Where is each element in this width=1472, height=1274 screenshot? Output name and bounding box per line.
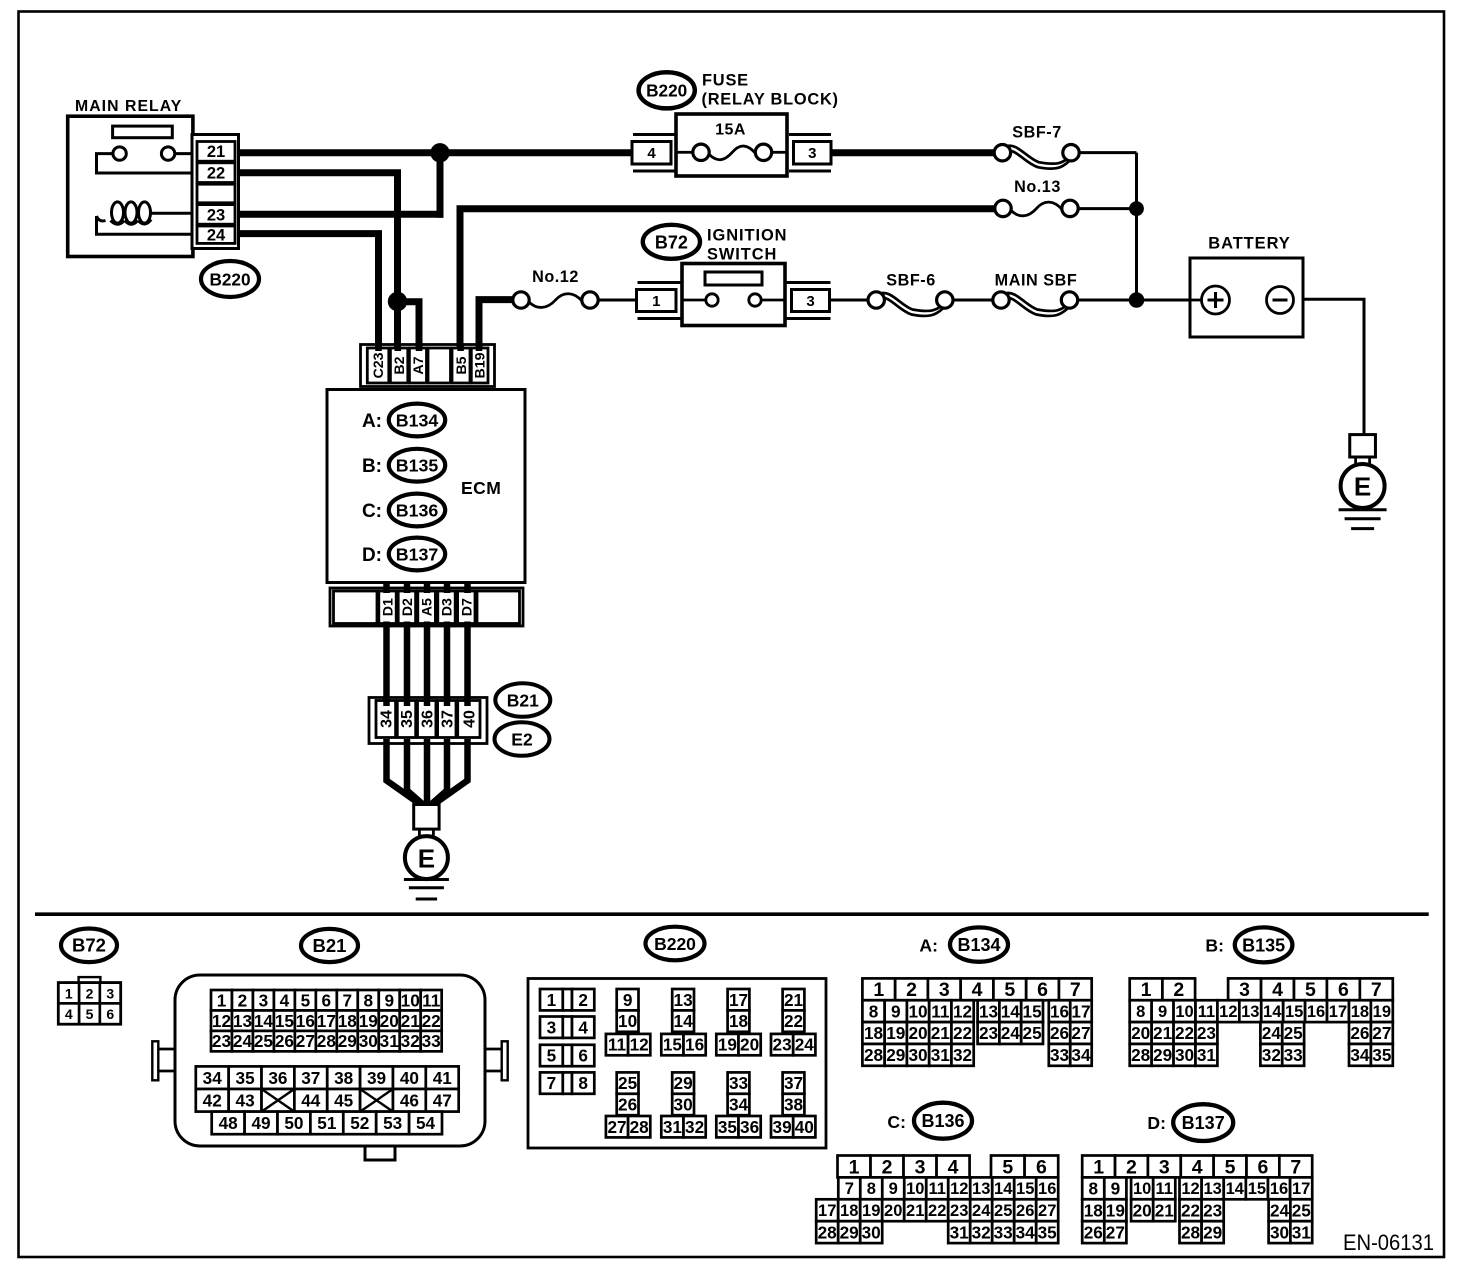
connector label C: B136 xyxy=(887,1103,972,1139)
svg-text:15: 15 xyxy=(1248,1180,1266,1198)
svg-text:3: 3 xyxy=(1159,1156,1170,1178)
svg-text:15: 15 xyxy=(275,1011,295,1031)
connector B21/E2 block (pins 34-40) xyxy=(369,698,487,744)
ECM top connector housing xyxy=(361,345,495,387)
svg-text:10: 10 xyxy=(401,990,420,1010)
battery positive terminal xyxy=(1202,286,1230,314)
svg-text:34: 34 xyxy=(378,710,395,728)
ECM connector ref B: B135 xyxy=(362,449,445,482)
svg-text:35: 35 xyxy=(1372,1045,1392,1065)
svg-text:23: 23 xyxy=(1203,1200,1222,1220)
svg-text:B21: B21 xyxy=(507,690,539,710)
svg-text:34: 34 xyxy=(729,1095,749,1115)
svg-text:9: 9 xyxy=(1111,1178,1121,1198)
svg-text:44: 44 xyxy=(301,1090,321,1110)
svg-text:18: 18 xyxy=(338,1011,358,1031)
svg-text:7: 7 xyxy=(547,1073,557,1093)
svg-text:19: 19 xyxy=(1373,1003,1391,1021)
svg-text:18: 18 xyxy=(1351,1003,1369,1021)
svg-text:15: 15 xyxy=(1023,1001,1043,1021)
svg-text:25: 25 xyxy=(1023,1023,1043,1043)
connector label B72 xyxy=(643,225,700,259)
connector B21 pinout housing xyxy=(152,975,507,1160)
svg-text:BATTERY: BATTERY xyxy=(1208,235,1290,253)
svg-text:34: 34 xyxy=(1071,1045,1091,1065)
svg-text:39: 39 xyxy=(773,1117,792,1137)
svg-text:(RELAY BLOCK): (RELAY BLOCK) xyxy=(702,91,839,109)
svg-text:8: 8 xyxy=(1088,1178,1098,1198)
svg-text:17: 17 xyxy=(317,1011,336,1031)
svg-text:14: 14 xyxy=(1263,1003,1282,1021)
svg-text:20: 20 xyxy=(884,1202,902,1220)
svg-text:7: 7 xyxy=(1371,979,1382,1001)
svg-text:52: 52 xyxy=(350,1113,369,1133)
svg-text:18: 18 xyxy=(840,1202,858,1220)
svg-text:12: 12 xyxy=(630,1035,649,1055)
connector label B220 (relay block) xyxy=(639,72,695,108)
wire: ignition switch line No.12 to battery xyxy=(598,299,638,302)
svg-text:8: 8 xyxy=(1136,1003,1145,1021)
svg-text:33: 33 xyxy=(994,1222,1013,1242)
ECM connector ref A: B134 xyxy=(362,404,445,437)
svg-text:2: 2 xyxy=(578,990,588,1010)
wire: branch junction to ECM A7 xyxy=(398,302,420,349)
svg-text:23: 23 xyxy=(950,1202,968,1220)
svg-text:16: 16 xyxy=(1270,1180,1288,1198)
svg-text:8: 8 xyxy=(363,990,373,1010)
svg-text:B135: B135 xyxy=(396,456,439,476)
svg-text:B136: B136 xyxy=(921,1111,964,1131)
svg-text:25: 25 xyxy=(994,1202,1012,1220)
svg-text:35: 35 xyxy=(399,710,416,728)
svg-text:15: 15 xyxy=(663,1035,683,1055)
svg-text:35: 35 xyxy=(1038,1222,1058,1242)
svg-text:9: 9 xyxy=(1158,1003,1167,1021)
connector B134 pinout xyxy=(862,978,1091,1065)
svg-text:11: 11 xyxy=(608,1035,627,1055)
svg-text:5: 5 xyxy=(547,1046,557,1066)
svg-text:2: 2 xyxy=(86,985,94,1001)
wire: main relay pin 21 to fuse pin 4 (net B+) xyxy=(235,149,634,156)
svg-text:D:: D: xyxy=(362,545,382,566)
svg-text:16: 16 xyxy=(296,1011,315,1031)
svg-text:24: 24 xyxy=(207,227,226,245)
connector B220 pinout box xyxy=(528,979,826,1149)
svg-text:21: 21 xyxy=(931,1023,951,1043)
svg-text:B137: B137 xyxy=(1182,1113,1225,1133)
svg-text:24: 24 xyxy=(233,1031,253,1051)
fusible link SBF-6 xyxy=(868,272,953,316)
svg-text:15A: 15A xyxy=(715,122,746,139)
svg-text:14: 14 xyxy=(994,1180,1013,1198)
svg-text:7: 7 xyxy=(1070,979,1081,1001)
svg-text:A7: A7 xyxy=(411,356,427,374)
svg-text:SWITCH: SWITCH xyxy=(707,246,777,264)
svg-text:13: 13 xyxy=(233,1011,252,1031)
svg-text:4: 4 xyxy=(65,1006,73,1022)
svg-text:2: 2 xyxy=(238,990,248,1010)
svg-text:37: 37 xyxy=(784,1073,803,1093)
svg-text:22: 22 xyxy=(953,1023,972,1043)
svg-text:36: 36 xyxy=(419,710,436,728)
svg-text:26: 26 xyxy=(1016,1202,1034,1220)
svg-text:A5: A5 xyxy=(420,598,436,616)
svg-text:22: 22 xyxy=(422,1011,441,1031)
svg-text:D7: D7 xyxy=(459,598,475,616)
svg-text:B72: B72 xyxy=(655,232,688,252)
svg-text:B:: B: xyxy=(1205,936,1224,956)
svg-text:32: 32 xyxy=(685,1117,704,1137)
svg-text:14: 14 xyxy=(674,1011,694,1031)
ECM bottom connector strip xyxy=(330,588,523,626)
ignition pin 3 xyxy=(786,283,831,319)
wire: battery negative to ground E xyxy=(1293,299,1364,437)
svg-text:21: 21 xyxy=(207,143,225,161)
svg-text:4: 4 xyxy=(647,145,656,162)
svg-text:15: 15 xyxy=(1285,1003,1303,1021)
svg-text:30: 30 xyxy=(359,1031,378,1051)
wire stubs ECM box to bottom strip xyxy=(383,582,390,593)
svg-text:25: 25 xyxy=(1284,1023,1304,1043)
svg-text:30: 30 xyxy=(674,1095,693,1115)
svg-text:26: 26 xyxy=(618,1095,637,1115)
svg-text:ECM: ECM xyxy=(461,478,501,498)
svg-text:40: 40 xyxy=(795,1117,814,1137)
svg-text:24: 24 xyxy=(1001,1023,1021,1043)
svg-text:3: 3 xyxy=(1239,979,1250,1001)
svg-text:17: 17 xyxy=(818,1202,836,1220)
svg-text:21: 21 xyxy=(906,1202,924,1220)
connector label B21 xyxy=(495,683,550,717)
junction dot on pin 22 net xyxy=(388,292,407,311)
connector B137 pinout xyxy=(1082,1156,1312,1244)
svg-text:1: 1 xyxy=(547,990,557,1010)
svg-text:31: 31 xyxy=(931,1045,951,1065)
svg-text:12: 12 xyxy=(212,1011,231,1031)
svg-text:10: 10 xyxy=(906,1180,924,1198)
fuse No.13 xyxy=(995,178,1078,217)
svg-text:25: 25 xyxy=(254,1031,274,1051)
svg-text:5: 5 xyxy=(301,990,311,1010)
svg-text:29: 29 xyxy=(840,1222,859,1242)
svg-text:39: 39 xyxy=(367,1068,386,1088)
main relay box xyxy=(68,116,193,256)
svg-text:EN-06131: EN-06131 xyxy=(1343,1230,1434,1255)
svg-text:D1: D1 xyxy=(381,598,397,616)
B21 pinout pins 34-47 xyxy=(196,1066,459,1111)
svg-text:13: 13 xyxy=(1241,1003,1259,1021)
svg-text:22: 22 xyxy=(1181,1200,1200,1220)
connector label B: B135 xyxy=(1205,927,1292,962)
svg-text:38: 38 xyxy=(334,1068,354,1088)
ground E (battery side) xyxy=(1339,435,1387,529)
relay connector housing B220 (pins 21-24) xyxy=(192,135,239,249)
svg-text:20: 20 xyxy=(1131,1023,1150,1043)
svg-text:B134: B134 xyxy=(957,935,1000,955)
svg-text:30: 30 xyxy=(1270,1222,1289,1242)
svg-text:9: 9 xyxy=(384,990,394,1010)
svg-text:B137: B137 xyxy=(396,544,439,564)
svg-text:2: 2 xyxy=(906,979,917,1001)
svg-text:11: 11 xyxy=(929,1180,946,1198)
svg-text:12: 12 xyxy=(953,1001,972,1021)
svg-text:D2: D2 xyxy=(400,598,416,616)
svg-text:11: 11 xyxy=(1198,1003,1215,1021)
svg-text:2: 2 xyxy=(1126,1156,1137,1178)
svg-text:33: 33 xyxy=(729,1073,748,1093)
svg-text:42: 42 xyxy=(203,1090,222,1110)
svg-text:1: 1 xyxy=(652,293,660,310)
svg-text:31: 31 xyxy=(950,1222,970,1242)
svg-text:1: 1 xyxy=(849,1156,860,1178)
svg-text:16: 16 xyxy=(1050,1001,1069,1021)
svg-text:26: 26 xyxy=(275,1031,294,1051)
svg-text:17: 17 xyxy=(1292,1180,1310,1198)
svg-text:21: 21 xyxy=(784,990,804,1010)
svg-text:19: 19 xyxy=(1106,1200,1125,1220)
svg-text:9: 9 xyxy=(623,990,633,1010)
svg-text:5: 5 xyxy=(1002,1156,1013,1178)
svg-text:23: 23 xyxy=(207,206,225,224)
svg-text:1: 1 xyxy=(1093,1156,1104,1178)
svg-text:53: 53 xyxy=(383,1113,402,1133)
fusible link MAIN SBF xyxy=(993,272,1078,316)
wire: main relay pin 23 horizontal xyxy=(235,211,444,218)
svg-text:4: 4 xyxy=(578,1017,588,1037)
svg-text:51: 51 xyxy=(317,1113,337,1133)
svg-text:3: 3 xyxy=(806,293,814,310)
svg-text:28: 28 xyxy=(630,1117,650,1137)
svg-text:33: 33 xyxy=(1284,1045,1303,1065)
svg-text:22: 22 xyxy=(207,165,225,183)
svg-text:B:: B: xyxy=(362,456,382,477)
svg-text:4: 4 xyxy=(1192,1156,1203,1178)
svg-text:28: 28 xyxy=(1131,1045,1151,1065)
svg-text:31: 31 xyxy=(663,1117,683,1137)
svg-text:18: 18 xyxy=(864,1023,884,1043)
svg-text:16: 16 xyxy=(1307,1003,1325,1021)
svg-text:24: 24 xyxy=(972,1202,991,1220)
wire: SBF-7 to right vertical bus xyxy=(1079,151,1137,154)
svg-text:33: 33 xyxy=(1050,1045,1069,1065)
svg-text:38: 38 xyxy=(784,1095,804,1115)
connector label B72 (pinout) xyxy=(61,929,117,963)
svg-text:6: 6 xyxy=(322,990,332,1010)
svg-text:35: 35 xyxy=(718,1117,738,1137)
relay contact plate xyxy=(113,126,173,138)
fuse pin 4 xyxy=(632,135,676,172)
svg-text:4: 4 xyxy=(1272,979,1283,1001)
svg-text:MAIN RELAY: MAIN RELAY xyxy=(75,98,182,115)
svg-text:6: 6 xyxy=(1036,1156,1047,1178)
svg-text:21: 21 xyxy=(1155,1200,1175,1220)
svg-text:36: 36 xyxy=(740,1117,759,1137)
svg-text:No.13: No.13 xyxy=(1014,178,1061,196)
svg-text:4: 4 xyxy=(972,979,983,1001)
wires ECM bottom strip to connector 34-40 xyxy=(383,622,390,707)
svg-text:E2: E2 xyxy=(511,729,533,749)
svg-text:50: 50 xyxy=(284,1113,303,1133)
svg-text:21: 21 xyxy=(1153,1023,1173,1043)
svg-text:5: 5 xyxy=(1305,979,1316,1001)
section separator line xyxy=(35,912,1429,916)
svg-text:27: 27 xyxy=(1071,1023,1090,1043)
svg-text:1: 1 xyxy=(217,990,227,1010)
fuse pin 3 xyxy=(789,135,831,172)
svg-text:20: 20 xyxy=(1133,1200,1152,1220)
svg-text:24: 24 xyxy=(1262,1023,1282,1043)
svg-text:11: 11 xyxy=(931,1001,950,1021)
ignition pin 1 xyxy=(637,283,683,319)
junction dot on pin 21 net xyxy=(430,143,449,162)
ECM box U1 xyxy=(327,390,525,583)
svg-text:13: 13 xyxy=(972,1180,990,1198)
svg-text:B21: B21 xyxy=(313,935,347,956)
svg-text:E: E xyxy=(1354,472,1371,502)
svg-text:54: 54 xyxy=(416,1113,436,1133)
svg-text:6: 6 xyxy=(1338,979,1349,1001)
svg-text:11: 11 xyxy=(422,990,441,1010)
relay coil xyxy=(97,202,192,234)
wire funnel from pins 34-40 to ground point xyxy=(387,739,421,805)
svg-text:IGNITION: IGNITION xyxy=(707,227,787,245)
svg-text:17: 17 xyxy=(1071,1001,1090,1021)
svg-text:26: 26 xyxy=(1350,1023,1369,1043)
svg-text:49: 49 xyxy=(251,1113,270,1133)
svg-text:5: 5 xyxy=(1004,979,1015,1001)
junction dot bus/No.13 xyxy=(1129,201,1144,216)
svg-text:29: 29 xyxy=(886,1045,905,1065)
svg-text:6: 6 xyxy=(1037,979,1048,1001)
svg-text:10: 10 xyxy=(618,1011,637,1031)
battery box xyxy=(1190,258,1303,337)
svg-text:B19: B19 xyxy=(473,352,489,378)
wire: junction drop to pin 23 wire xyxy=(437,153,444,218)
wire stubs into ECM top connector cells xyxy=(375,343,382,351)
svg-text:14: 14 xyxy=(1226,1180,1245,1198)
svg-text:22: 22 xyxy=(1175,1023,1194,1043)
svg-text:3: 3 xyxy=(939,979,950,1001)
svg-text:40: 40 xyxy=(400,1068,419,1088)
svg-text:27: 27 xyxy=(1106,1222,1125,1242)
svg-text:11: 11 xyxy=(1156,1180,1173,1198)
svg-text:41: 41 xyxy=(433,1068,453,1088)
svg-text:40: 40 xyxy=(462,710,479,728)
svg-text:6: 6 xyxy=(1257,1156,1268,1178)
B21 pinout pins 48-54 xyxy=(212,1112,442,1135)
connector label B21 (pinout) xyxy=(301,929,358,962)
svg-text:46: 46 xyxy=(400,1090,419,1110)
svg-text:18: 18 xyxy=(729,1011,749,1031)
wire: main relay pin 24 to ECM C23 xyxy=(235,234,379,349)
svg-text:1: 1 xyxy=(873,979,884,1001)
svg-text:31: 31 xyxy=(1292,1222,1312,1242)
svg-text:C:: C: xyxy=(887,1112,906,1132)
svg-text:14: 14 xyxy=(1001,1001,1021,1021)
svg-text:31: 31 xyxy=(380,1031,400,1051)
svg-text:27: 27 xyxy=(1372,1023,1391,1043)
svg-text:13: 13 xyxy=(1204,1180,1222,1198)
wire: No.13 fuse to ECM B5 xyxy=(460,209,995,349)
svg-text:22: 22 xyxy=(928,1202,946,1220)
svg-text:B134: B134 xyxy=(396,410,439,430)
svg-text:26: 26 xyxy=(1084,1222,1103,1242)
svg-text:8: 8 xyxy=(578,1073,588,1093)
svg-text:21: 21 xyxy=(401,1011,421,1031)
battery negative terminal xyxy=(1267,287,1294,314)
svg-text:28: 28 xyxy=(864,1045,884,1065)
B220 pinout pins 1-8 xyxy=(540,989,594,1094)
svg-text:5: 5 xyxy=(1225,1156,1236,1178)
svg-text:35: 35 xyxy=(236,1068,256,1088)
svg-text:2: 2 xyxy=(882,1156,893,1178)
connector label A: B134 xyxy=(919,927,1008,961)
svg-text:A:: A: xyxy=(362,411,382,432)
svg-text:10: 10 xyxy=(1175,1003,1193,1021)
ignition switch body xyxy=(682,264,785,326)
svg-text:19: 19 xyxy=(886,1023,905,1043)
B21 pinout pins 1-33 xyxy=(211,990,442,1051)
svg-text:13: 13 xyxy=(674,990,693,1010)
svg-text:D:: D: xyxy=(1147,1113,1166,1133)
wire: fuse pin 3 to SBF-7 xyxy=(829,149,995,156)
svg-text:25: 25 xyxy=(1292,1200,1312,1220)
svg-text:3: 3 xyxy=(259,990,269,1010)
svg-text:5: 5 xyxy=(86,1006,94,1022)
svg-text:32: 32 xyxy=(972,1222,991,1242)
svg-text:3: 3 xyxy=(106,985,114,1001)
connector label B220 (main relay) xyxy=(201,261,259,297)
svg-text:24: 24 xyxy=(1270,1200,1290,1220)
svg-text:19: 19 xyxy=(718,1035,737,1055)
svg-text:23: 23 xyxy=(1197,1023,1216,1043)
svg-text:4: 4 xyxy=(280,990,290,1010)
svg-text:10: 10 xyxy=(1133,1180,1151,1198)
svg-text:30: 30 xyxy=(908,1045,927,1065)
svg-text:36: 36 xyxy=(268,1068,287,1088)
svg-text:33: 33 xyxy=(422,1031,441,1051)
relay contact circles and arm xyxy=(97,147,192,173)
svg-text:8: 8 xyxy=(867,1180,876,1198)
svg-text:12: 12 xyxy=(1219,1003,1237,1021)
fusible link SBF-7 xyxy=(994,124,1079,169)
svg-text:2: 2 xyxy=(1173,979,1184,1001)
svg-text:17: 17 xyxy=(729,990,748,1010)
svg-text:28: 28 xyxy=(317,1031,337,1051)
svg-text:No.12: No.12 xyxy=(532,268,579,286)
svg-text:25: 25 xyxy=(618,1073,638,1093)
svg-text:29: 29 xyxy=(338,1031,357,1051)
svg-text:20: 20 xyxy=(908,1023,927,1043)
svg-text:B72: B72 xyxy=(72,935,106,956)
svg-text:7: 7 xyxy=(845,1180,854,1198)
svg-text:29: 29 xyxy=(674,1073,693,1093)
svg-text:27: 27 xyxy=(296,1031,315,1051)
svg-text:27: 27 xyxy=(1038,1202,1056,1220)
svg-text:28: 28 xyxy=(1181,1222,1201,1242)
connector B136 pinout xyxy=(816,1156,1058,1244)
svg-text:SBF-6: SBF-6 xyxy=(886,272,936,290)
svg-text:FUSE: FUSE xyxy=(702,72,749,90)
ECM connector ref D: B137 xyxy=(362,538,445,571)
connector label D: B137 xyxy=(1147,1104,1233,1141)
svg-text:19: 19 xyxy=(359,1011,378,1031)
svg-text:37: 37 xyxy=(301,1068,320,1088)
svg-text:34: 34 xyxy=(1350,1045,1370,1065)
svg-text:30: 30 xyxy=(1175,1045,1194,1065)
svg-text:24: 24 xyxy=(795,1035,815,1055)
svg-text:34: 34 xyxy=(1016,1222,1036,1242)
